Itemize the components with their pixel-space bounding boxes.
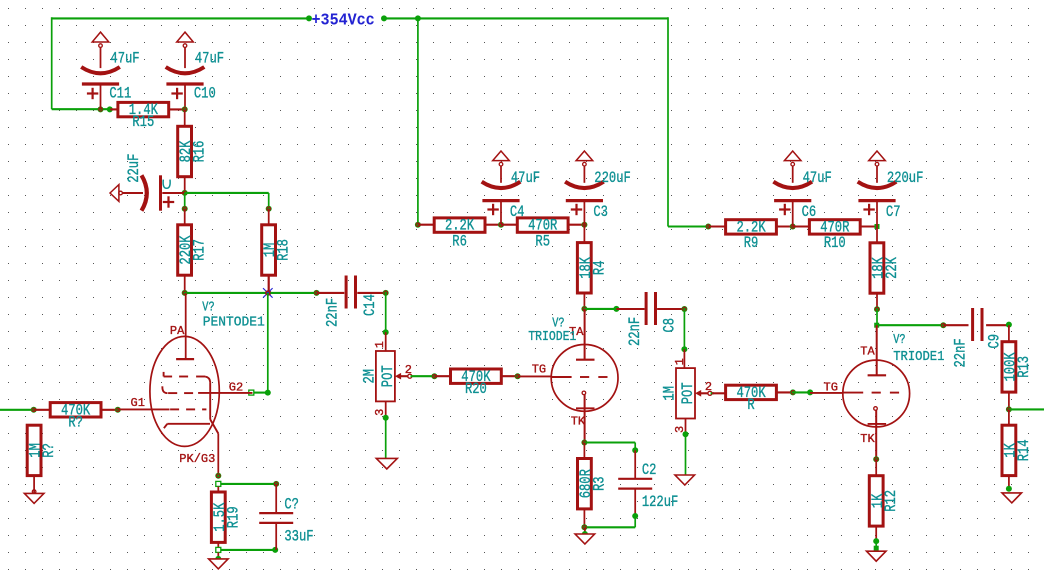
- wire: [711, 392, 714, 394]
- svg-text:G1: G1: [131, 396, 145, 410]
- junction: [581, 440, 587, 446]
- junction: [807, 389, 813, 395]
- junction: [215, 473, 221, 479]
- junction: [265, 390, 271, 396]
- wire: [876, 294, 878, 309]
- wire: [268, 275, 270, 293]
- wire: [385, 418, 387, 459]
- resistor R6: [434, 217, 485, 251]
- svg-text:2: 2: [705, 380, 712, 394]
- wire: [568, 224, 585, 226]
- wire TK pin: [584, 395, 586, 443]
- wire end square: [874, 546, 879, 551]
- svg-text:C8: C8: [661, 318, 679, 333]
- junction: [515, 373, 521, 379]
- wire: [275, 484, 277, 513]
- wire: [875, 541, 877, 548]
- wire: [184, 275, 186, 293]
- svg-text:2M: 2M: [361, 369, 379, 384]
- svg-text:R?: R?: [68, 414, 83, 432]
- svg-text:R6: R6: [452, 233, 467, 251]
- svg-text:R17: R17: [191, 239, 209, 261]
- wire input: [0, 409, 34, 411]
- wire: [776, 391, 793, 393]
- wire mid drop: [417, 18, 419, 224]
- junction: [1006, 406, 1012, 412]
- svg-text:TG: TG: [824, 381, 838, 395]
- wire: [793, 225, 810, 227]
- wire: [583, 225, 585, 242]
- junction: [632, 513, 638, 519]
- wire: [876, 309, 878, 325]
- junction: [381, 15, 387, 21]
- wire: [184, 177, 186, 193]
- wire right drop: [667, 17, 669, 226]
- wire: [875, 459, 877, 476]
- junction: [182, 206, 188, 212]
- wire: [793, 391, 810, 393]
- wire: [275, 523, 277, 550]
- potentiometer POT 2M: [361, 341, 412, 416]
- wire: [418, 224, 434, 226]
- svg-text:47uF: 47uF: [803, 170, 832, 188]
- junction: [873, 456, 879, 462]
- wire: [254, 392, 268, 394]
- wire: [184, 209, 186, 227]
- wire: [876, 227, 878, 243]
- wire: [221, 549, 275, 551]
- wire: [683, 349, 685, 368]
- resistor R 470K: [726, 385, 777, 415]
- wire: [1008, 409, 1010, 425]
- svg-text:1M: 1M: [661, 386, 679, 401]
- wire: [185, 292, 317, 294]
- resistor R5: [517, 217, 568, 251]
- capacitor C4: [482, 151, 540, 225]
- junction: [415, 15, 421, 21]
- svg-text:22nF: 22nF: [952, 338, 970, 367]
- resistor R9: [726, 219, 777, 253]
- junction: [498, 222, 504, 228]
- svg-text:22uF: 22uF: [126, 154, 144, 183]
- ground pot 1M: [675, 475, 695, 485]
- svg-text:TA: TA: [860, 344, 875, 358]
- potentiometer POT 1M: [661, 358, 712, 433]
- svg-text:R18: R18: [275, 239, 293, 261]
- wire: [584, 526, 635, 528]
- wire: [860, 225, 877, 227]
- capacitor C3: [565, 151, 631, 225]
- junction: [31, 407, 37, 413]
- svg-text:R?: R?: [41, 443, 59, 458]
- resistor R? 1M input: [27, 425, 59, 475]
- wire: [875, 526, 877, 541]
- wire: [634, 516, 636, 527]
- wire: [317, 292, 345, 294]
- junction: [431, 373, 437, 379]
- junction: [182, 106, 188, 112]
- wire: [668, 225, 708, 227]
- wire left drop: [51, 17, 53, 109]
- junction: [314, 290, 320, 296]
- junction: [98, 106, 104, 112]
- svg-text:TK: TK: [860, 432, 875, 446]
- power label +354Vcc: [312, 10, 375, 30]
- ground: [24, 476, 44, 504]
- wire: [434, 375, 450, 377]
- ground pot 2M: [376, 458, 397, 469]
- svg-text:C14: C14: [362, 294, 380, 316]
- wire: [501, 224, 518, 226]
- resistor R18: [262, 225, 294, 275]
- resistor R15: [118, 102, 169, 132]
- svg-text:TRIODE1: TRIODE1: [893, 349, 944, 365]
- wire top rail left: [52, 17, 309, 19]
- capacitor C11: [81, 32, 139, 109]
- junction: [613, 306, 619, 312]
- resistor R17: [178, 225, 210, 275]
- junction: [683, 431, 689, 437]
- svg-text:TG: TG: [532, 363, 546, 377]
- svg-text:R3: R3: [591, 476, 609, 491]
- capacitor C? 22uF: [110, 154, 185, 211]
- junction: [1006, 322, 1012, 328]
- pin end: [115, 407, 121, 413]
- no-connect X: [263, 288, 273, 298]
- wire TK pin: [875, 410, 877, 459]
- wire: [685, 434, 687, 475]
- svg-text:R15: R15: [132, 113, 154, 131]
- triode V? TRIODE1 (first): [528, 315, 618, 428]
- svg-text:TRIODE1: TRIODE1: [528, 329, 576, 345]
- svg-text:R: R: [747, 397, 755, 415]
- wire G1 pin: [118, 408, 170, 410]
- ground: [867, 551, 887, 561]
- junction: [107, 106, 113, 112]
- capacitor C10: [166, 32, 224, 109]
- wire: [584, 308, 616, 310]
- ground: [1002, 493, 1022, 503]
- capacitor C7: [858, 151, 924, 227]
- svg-text:V?: V?: [202, 299, 214, 315]
- svg-text:PA: PA: [170, 324, 185, 338]
- resistor R13: [1002, 342, 1034, 392]
- junction: [182, 190, 188, 196]
- junction: [681, 346, 687, 352]
- svg-text:C3: C3: [593, 204, 608, 222]
- svg-text:22K: 22K: [884, 257, 902, 279]
- svg-text:220uF: 220uF: [887, 170, 923, 188]
- wire: [583, 443, 585, 460]
- wire: [110, 108, 118, 110]
- wire: [634, 450, 636, 478]
- capacitor C8: [627, 292, 680, 346]
- wire: [616, 308, 644, 310]
- wire to C11 node: [52, 108, 110, 110]
- resistor R? 470K input: [50, 402, 101, 432]
- pin end: [267, 291, 271, 295]
- junction: [1006, 486, 1012, 492]
- svg-text:220uF: 220uF: [594, 170, 630, 188]
- resistor R20: [451, 368, 502, 398]
- svg-text:22nF: 22nF: [324, 298, 342, 327]
- svg-text:PENTODE1: PENTODE1: [203, 314, 265, 330]
- wire: [34, 409, 50, 411]
- svg-text:2: 2: [405, 363, 412, 377]
- junction: [383, 290, 389, 296]
- wire: [185, 192, 269, 194]
- wire: [683, 309, 685, 349]
- junction: [790, 389, 796, 395]
- junction: [681, 306, 687, 312]
- wire: [986, 324, 1009, 326]
- pentode U1 V? PENTODE1: [131, 293, 265, 476]
- resistor R14: [1002, 425, 1034, 475]
- junction: [705, 224, 711, 230]
- junction: [383, 415, 389, 421]
- capacitor C6: [773, 151, 831, 227]
- wire: [101, 409, 118, 411]
- resistor R11: [870, 243, 902, 293]
- svg-text:C11: C11: [109, 85, 131, 103]
- junction: [383, 329, 389, 335]
- wire: [657, 308, 684, 310]
- wire end square: [216, 481, 221, 486]
- wire end square: [216, 547, 221, 552]
- wire end square: [874, 323, 879, 328]
- svg-text:1: 1: [673, 358, 687, 365]
- wire TG pin: [810, 392, 842, 394]
- junction: [266, 206, 272, 212]
- junction: [874, 306, 880, 312]
- junction: [632, 447, 638, 453]
- wire: [385, 401, 387, 418]
- wire TA pin: [584, 309, 586, 359]
- junction: [940, 322, 946, 328]
- wire: [357, 292, 385, 294]
- junction: [182, 290, 188, 296]
- node +354Vcc junction: [306, 15, 312, 21]
- wire: [776, 225, 792, 227]
- svg-text:C10: C10: [194, 85, 216, 103]
- wire TA pin: [876, 325, 878, 376]
- svg-text:V?: V?: [893, 332, 905, 348]
- svg-text:R16: R16: [191, 141, 209, 163]
- wire: [712, 392, 726, 394]
- svg-text:POT: POT: [379, 365, 397, 387]
- wire: [1008, 325, 1010, 342]
- svg-text:R12: R12: [883, 490, 901, 512]
- wire: [583, 294, 585, 309]
- junction: [581, 524, 587, 530]
- wire: [268, 193, 270, 209]
- wire: [485, 224, 501, 226]
- ground: [575, 527, 595, 544]
- capacitor C? 33uF: [259, 496, 313, 546]
- svg-text:R10: R10: [824, 235, 846, 253]
- wire: [217, 542, 219, 547]
- svg-text:33uF: 33uF: [284, 528, 313, 546]
- svg-text:47uF: 47uF: [195, 50, 224, 68]
- wire: [267, 293, 269, 393]
- svg-text:22nF: 22nF: [627, 317, 645, 346]
- junction: [873, 538, 879, 544]
- wire TG pin: [518, 375, 552, 377]
- resistor R4: [577, 243, 609, 293]
- capacitor C2: [618, 462, 678, 512]
- junction: [581, 222, 587, 228]
- wire: [418, 224, 420, 226]
- wire end square: [249, 390, 254, 395]
- triode V? TRIODE1 (second): [824, 332, 945, 446]
- wire output: [1009, 408, 1044, 410]
- wire top rail right: [384, 17, 668, 19]
- svg-text:R4: R4: [591, 261, 609, 276]
- wire: [217, 487, 219, 492]
- wire: [943, 324, 968, 326]
- junction: [581, 306, 587, 312]
- capacitor C14: [324, 276, 379, 328]
- wire: [268, 209, 270, 227]
- svg-text:G2: G2: [229, 380, 243, 394]
- junction: [415, 222, 421, 228]
- svg-text:R13: R13: [1016, 356, 1034, 378]
- ground: [209, 553, 229, 569]
- junction: [790, 224, 796, 230]
- svg-text:C7: C7: [886, 204, 901, 222]
- wire: [634, 443, 636, 451]
- wire: [584, 441, 635, 443]
- resistor R10: [809, 219, 860, 253]
- wire: [169, 108, 185, 110]
- wire: [385, 332, 387, 351]
- resistor R16: [178, 126, 210, 176]
- wire: [634, 489, 636, 516]
- resistor R12: [869, 476, 901, 526]
- wire: [184, 193, 186, 209]
- resistor R3: [578, 459, 610, 509]
- svg-text:R19: R19: [225, 506, 243, 528]
- svg-text:47uF: 47uF: [511, 170, 540, 188]
- svg-text:47uF: 47uF: [110, 50, 139, 68]
- svg-text:PK/G3: PK/G3: [179, 452, 215, 466]
- wire: [685, 418, 687, 434]
- wire: [583, 508, 585, 527]
- wire: [411, 375, 435, 377]
- junction: [272, 547, 278, 553]
- svg-text:R14: R14: [1016, 439, 1034, 461]
- wire: [501, 375, 517, 377]
- svg-text:R5: R5: [535, 233, 550, 251]
- svg-text:+354Vcc: +354Vcc: [312, 10, 375, 30]
- svg-text:C2: C2: [642, 462, 657, 480]
- wire: [1008, 475, 1010, 488]
- wire: [879, 324, 943, 326]
- svg-text:1: 1: [373, 341, 387, 348]
- capacitor C9: [952, 308, 1004, 368]
- wire: [1008, 392, 1010, 410]
- wire: [708, 225, 725, 227]
- wire: [184, 109, 186, 126]
- resistor R19: [211, 492, 243, 542]
- junction: [273, 481, 279, 487]
- wire: [221, 483, 276, 485]
- wire: [385, 293, 387, 332]
- svg-text:POT: POT: [680, 382, 698, 404]
- svg-text:C?: C?: [284, 496, 299, 514]
- junction: [875, 224, 880, 229]
- svg-text:R9: R9: [744, 235, 759, 253]
- svg-text:122uF: 122uF: [642, 494, 678, 512]
- svg-text:R20: R20: [465, 381, 487, 399]
